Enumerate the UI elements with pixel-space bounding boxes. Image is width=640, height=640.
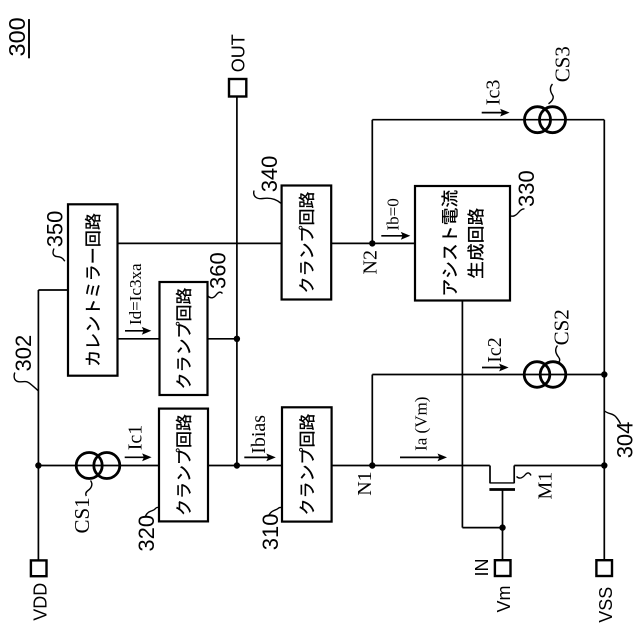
svg-text:CS2: CS2: [550, 309, 574, 345]
svg-text:Vm: Vm: [494, 586, 514, 613]
svg-text:350: 350: [42, 211, 67, 248]
svg-text:Ic2: Ic2: [484, 337, 506, 363]
svg-text:310: 310: [258, 513, 283, 550]
svg-text:M1: M1: [534, 472, 556, 500]
svg-text:Ib=0: Ib=0: [384, 198, 403, 230]
svg-text:360: 360: [206, 252, 231, 289]
svg-text:OUT: OUT: [229, 34, 249, 72]
svg-text:Ic1: Ic1: [125, 425, 147, 451]
svg-text:340: 340: [257, 156, 282, 193]
svg-text:IN: IN: [472, 559, 492, 577]
svg-text:Ia (Vm): Ia (Vm): [412, 397, 431, 451]
svg-text:CS1: CS1: [70, 497, 94, 533]
svg-text:N1: N1: [354, 471, 376, 495]
svg-text:Id=Ic3xa: Id=Ic3xa: [126, 263, 145, 325]
svg-text:320: 320: [134, 515, 159, 552]
svg-text:330: 330: [514, 170, 539, 207]
svg-text:CS3: CS3: [551, 46, 575, 82]
svg-text:Ibias: Ibias: [248, 415, 270, 454]
svg-text:VSS: VSS: [596, 587, 616, 623]
svg-text:N2: N2: [359, 250, 381, 274]
svg-text:304: 304: [612, 422, 637, 459]
svg-text:Ic3: Ic3: [483, 80, 505, 106]
svg-text:302: 302: [11, 335, 36, 372]
svg-text:300: 300: [4, 17, 30, 56]
svg-text:VDD: VDD: [30, 583, 50, 621]
